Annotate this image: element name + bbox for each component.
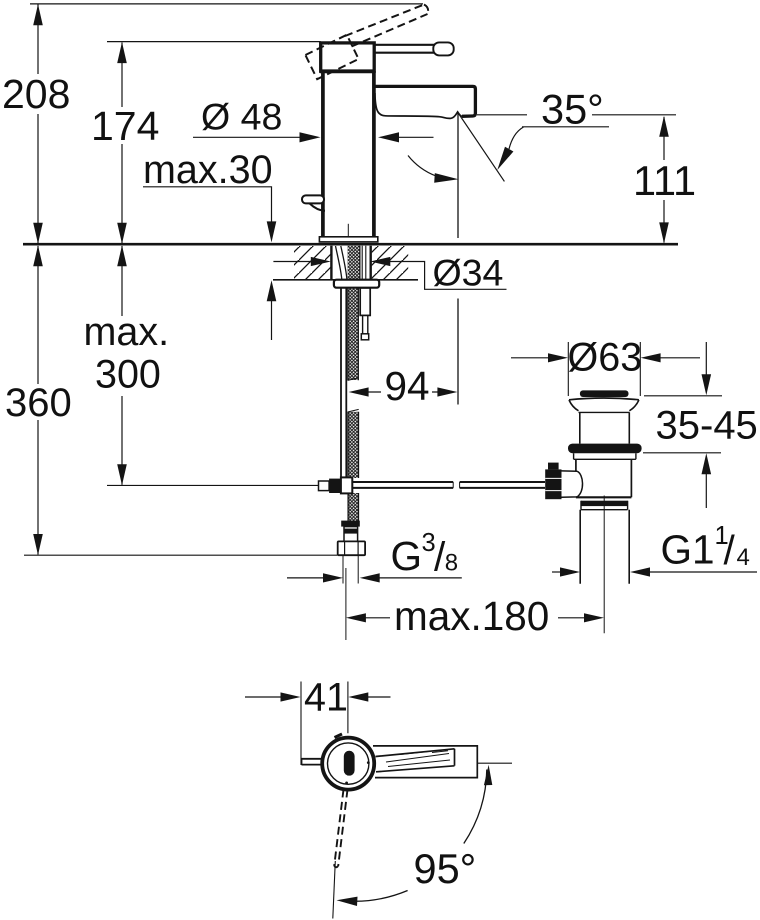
mounting deck hatch <box>294 246 331 279</box>
locknut <box>334 280 379 288</box>
G3/8 thread stub lines <box>343 555 358 583</box>
dimension G1 1/4 <box>552 571 563 573</box>
braided hose in shank hole <box>348 246 360 280</box>
top view: small tab on circle <box>335 734 343 738</box>
svg-text:111: 111 <box>633 157 696 204</box>
faucet body column <box>323 71 374 237</box>
svg-text:208: 208 <box>2 71 70 117</box>
svg-text:max.180: max.180 <box>394 593 549 639</box>
top view: spout outer rectangle <box>373 746 477 778</box>
dimension 41 <box>245 696 283 698</box>
dimension O34 arrows and leader <box>273 261 314 263</box>
top view: pop-up rod stub <box>302 759 322 765</box>
top view: small dots <box>345 782 348 785</box>
top view: 41 extension lines <box>301 682 348 766</box>
svg-text:8: 8 <box>445 550 458 577</box>
svg-text:max.30: max.30 <box>143 148 273 192</box>
drain tailpipe <box>580 510 629 584</box>
35-45 reference lines <box>643 396 722 453</box>
35 degree underline <box>522 126 609 128</box>
dimension 360 line <box>37 246 39 555</box>
pop-up rod knob on body <box>302 195 324 203</box>
95 degree arc <box>341 770 487 902</box>
max.300 bottom reference line <box>107 484 319 486</box>
max.30 underline and leader <box>143 187 272 224</box>
top view: dashed lever (pointing down) <box>334 790 347 868</box>
lever handle (raised position, dashed) <box>305 5 428 80</box>
faucet cap (cartridge housing) <box>321 43 375 71</box>
dimension 35-45 arrows <box>705 342 707 376</box>
svg-text:95°: 95° <box>414 845 477 892</box>
max.30 lower arrow <box>271 296 273 340</box>
dimension 208 line <box>37 5 39 244</box>
second hose tube <box>341 288 346 478</box>
dimension 111 line <box>663 117 665 243</box>
svg-text:35-45: 35-45 <box>656 404 758 448</box>
dimension 174 line <box>121 43 123 244</box>
pop-up rod tube in hole <box>362 246 366 280</box>
drain flange top <box>569 398 639 400</box>
svg-text:max.: max. <box>84 310 170 354</box>
drain washer <box>574 453 636 459</box>
drain rod boss <box>562 471 578 497</box>
top view: faucet body inner circle <box>328 743 369 784</box>
svg-text:G1: G1 <box>661 527 715 573</box>
dimension max.180 <box>363 617 390 619</box>
111 top reference line <box>477 114 676 116</box>
drain axis line <box>603 496 605 634</box>
drain plug top bar <box>580 390 629 397</box>
drain flange sides <box>569 400 639 411</box>
drain rod clamp nut (black) <box>548 463 559 470</box>
spout <box>374 86 475 116</box>
deck top line <box>23 243 678 246</box>
drain body <box>576 459 632 497</box>
dimension max.300 line <box>121 246 123 485</box>
horizontal pop-up rod <box>352 482 545 488</box>
braided hose middle section <box>348 412 359 478</box>
dimension O63 <box>511 357 551 359</box>
35 degree stream line <box>458 113 504 181</box>
top view: spout axis line right <box>477 762 512 764</box>
inner rod line in body <box>347 224 349 237</box>
35 degree sweep arc and arrow <box>408 156 436 177</box>
top view: lever slot <box>344 751 355 776</box>
lever handle (horizontal position) <box>374 45 435 53</box>
braided hose upper section <box>348 288 359 380</box>
G3/8 nut <box>338 541 365 555</box>
drain bottom ring <box>581 501 628 506</box>
svg-text:360: 360 <box>5 381 72 425</box>
top reference line (208 upper extent) <box>30 3 423 5</box>
braided hose below linkage <box>348 493 359 521</box>
O63 extension lines <box>568 342 640 396</box>
svg-text:35°: 35° <box>541 85 604 132</box>
svg-text:Ø34: Ø34 <box>433 251 504 293</box>
deck bottom line <box>273 279 418 281</box>
top view: lever axis extension line <box>333 861 336 919</box>
dimension O48 underline and arrows <box>193 136 301 138</box>
svg-text:300: 300 <box>95 353 161 397</box>
svg-text:4: 4 <box>737 544 750 571</box>
360 bottom reference line <box>24 554 337 556</box>
svg-text:41: 41 <box>304 676 348 720</box>
drain sealing ring (black) <box>568 444 642 454</box>
svg-text:Ø 48: Ø 48 <box>201 96 282 138</box>
top view: spout inner tube <box>376 749 455 772</box>
pop-up linkage tee black block <box>329 479 341 493</box>
svg-text:G: G <box>391 533 423 579</box>
pop-up linkage tee square <box>341 477 352 493</box>
hose curves in hole <box>336 246 347 280</box>
drain neck <box>580 412 630 443</box>
hose axis extension line <box>345 568 347 640</box>
svg-text:Ø63: Ø63 <box>568 335 643 379</box>
svg-text:/: / <box>724 527 736 573</box>
water stream axis line <box>457 113 459 405</box>
svg-text:174: 174 <box>91 103 159 149</box>
threaded shank walls <box>331 246 370 280</box>
174 reference line <box>107 41 321 43</box>
dimension 94 line <box>365 391 441 393</box>
svg-text:94: 94 <box>385 363 430 409</box>
hose end fitting neck <box>344 527 358 542</box>
base escutcheon <box>319 237 377 242</box>
top view: faucet body outer circle <box>322 738 374 790</box>
35 degree leader curve and arrow <box>509 127 524 149</box>
dimension G3/8 <box>287 577 326 579</box>
pop-up linkage tee white fitting <box>319 481 330 491</box>
hose end fitting crimp band <box>341 521 360 527</box>
pop-up rod guide below nut <box>360 288 370 315</box>
